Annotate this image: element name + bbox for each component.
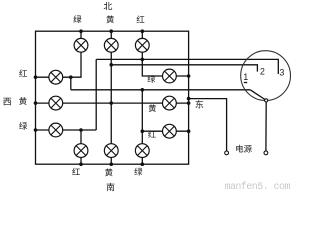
label W-yellow: [19, 97, 27, 105]
label power 源: [244, 145, 252, 153]
junction S-green on bottom bus: [141, 162, 145, 166]
label power 电: [236, 145, 243, 153]
wire stem S-green to bottom bus: [141, 151, 143, 165]
junction node A (W-red + N-green + contact1 feed): [69, 75, 73, 79]
wire W-green riser from contact-3 wire down to west green row: [95, 59, 97, 130]
junction N-red stem with contact-3 wire: [141, 58, 145, 62]
junction E-yellow on right bus: [187, 101, 191, 105]
lamp HL3 north red: [135, 38, 149, 52]
junction S-green riser with contact-1 wire: [141, 88, 145, 92]
label E-yellow: [149, 104, 156, 112]
wire contact-3 net (N-red/E-green/W-green/S-red) to switch contact 3: [96, 59, 278, 74]
junction W-red on left bus: [34, 75, 38, 79]
wire wiper pivot to right power terminal: [265, 102, 267, 151]
junction S-red on bottom bus: [79, 162, 83, 166]
svg-text:2: 2: [260, 66, 265, 76]
wire node A drop to contact-1 feed: [70, 77, 72, 90]
terminal power right: [264, 151, 268, 155]
wire frame bus to left power terminal: [189, 99, 227, 152]
lamp HL1 north green: [74, 38, 88, 52]
lamp HL5 west yellow: [49, 96, 63, 110]
lamp HL6 west green: [49, 123, 63, 137]
label W-green: [19, 122, 27, 130]
label direction East: [196, 100, 204, 108]
label E-green: [147, 75, 155, 83]
wire stem N-green to top bus: [80, 31, 82, 45]
lamp HL9 east red: [163, 124, 177, 138]
junction E-red branch on S-green riser: [141, 129, 145, 133]
wire wiper arm of selector S1: [250, 90, 265, 100]
wire stem S-yellow to bottom bus: [110, 151, 112, 165]
junction S-yellow on bottom bus: [109, 162, 113, 166]
junction N-yellow on top bus: [109, 29, 113, 33]
junction W-yellow on left bus: [34, 101, 38, 105]
label E-red: [148, 130, 156, 137]
label direction South: [107, 183, 115, 191]
junction W-green on left bus: [34, 128, 38, 132]
junction N-yellow stem with contact-2 wire: [109, 63, 113, 67]
junction E-red on right bus: [187, 129, 191, 133]
label S-green: [134, 168, 142, 176]
wiper pivot of S1: [265, 99, 268, 102]
lamp HL7 east green: [163, 69, 177, 83]
wire S-green/E-red riser from contact-1 wire: [141, 90, 143, 151]
wire contact-1 net (W-red/N-green/S-green/E-red) to switch contact 1: [71, 89, 250, 91]
junction N-red on top bus: [141, 29, 145, 33]
label N-red: [137, 15, 145, 22]
wire stem S-red to bottom bus: [80, 151, 82, 165]
lamp HL2 north yellow: [104, 38, 118, 52]
wire lamp-common frame bus: [36, 31, 189, 164]
wire S-red stem up to W-green row: [80, 130, 82, 151]
label S-yellow: [105, 168, 113, 176]
terminal power left: [225, 151, 229, 155]
wire W-yellow / E-yellow row: [36, 102, 189, 104]
lamp HL12 south green: [135, 144, 149, 158]
lamp HL8 east yellow: [163, 96, 177, 110]
lamp HL10 south red: [74, 144, 88, 158]
label W-red: [19, 69, 27, 76]
wire N-red lamp down and right to E-green lamp: [142, 45, 188, 76]
rotary selector switch S1 body: [241, 51, 291, 101]
lamp HL4 west red: [49, 70, 63, 84]
label direction West: [3, 98, 11, 106]
svg-text:manfen5. com: manfen5. com: [225, 181, 291, 192]
junction N-green on top bus: [79, 29, 83, 33]
svg-text:1: 1: [243, 72, 248, 82]
wire E-red row: [142, 130, 188, 132]
wire W-red row: [36, 76, 71, 78]
junction power tap on right bus: [187, 97, 191, 101]
wire stem N-red to top bus: [141, 31, 143, 45]
label direction North: [104, 2, 112, 10]
lamp HL11 south yellow: [104, 144, 118, 158]
wire W-green row: [36, 129, 97, 131]
svg-text:3: 3: [279, 68, 284, 78]
wire N-green lamp to node A: [71, 45, 81, 77]
wire N-yellow lamp down to S-yellow (yellow group riser): [110, 45, 112, 150]
contact 1 pad of S1: [244, 82, 247, 84]
wire contact-2 net (yellow group) to switch contact 2: [111, 65, 257, 72]
junction E-green on right bus: [187, 74, 191, 78]
label N-yellow: [106, 15, 114, 23]
label S-red: [72, 168, 80, 175]
junction S-red stem with W-green row: [79, 128, 83, 132]
wire stem N-yellow to top bus: [110, 31, 112, 45]
label N-green: [73, 15, 81, 23]
junction yellow riser with yellow row: [109, 101, 113, 105]
